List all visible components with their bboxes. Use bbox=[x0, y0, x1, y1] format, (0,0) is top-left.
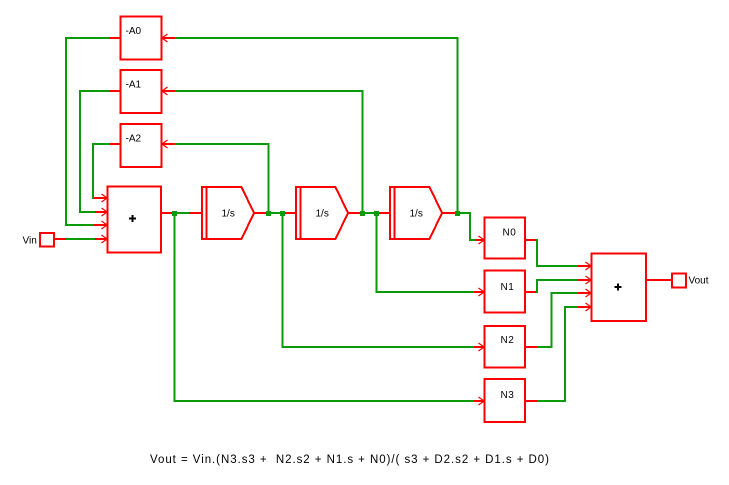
wire: Vin to summer U1 input 4 bbox=[54, 238, 107, 240]
integrator I3 bbox=[390, 187, 442, 239]
wire: feedback to -A0 input bbox=[162, 37, 459, 212]
svg-text:Vout = Vin.(N3.s3 + N2.s2 + N: Vout = Vin.(N3.s3 + N2.s2 + N1.s + N0)/(… bbox=[150, 454, 549, 466]
wire: integrator I2 output to integrator I3 input bbox=[348, 212, 390, 214]
arrowhead into U1 input 2 bbox=[102, 208, 108, 216]
block N0 bbox=[485, 218, 526, 259]
wire: N2 output to summer U2 input 3 bbox=[525, 292, 591, 348]
arrowhead into U2 input 2 bbox=[586, 276, 592, 284]
wire: -A0 output to summer U1 input 3 bbox=[65, 37, 121, 226]
wire: integrator I1 output to integrator I2 input bbox=[254, 212, 296, 214]
node junction feedback A2 bbox=[266, 211, 271, 216]
arrowhead into U2 input 3 bbox=[586, 289, 592, 297]
arrowhead into U1 input 1 bbox=[102, 194, 108, 202]
svg-text:Vin: Vin bbox=[23, 236, 37, 247]
arrowhead into U1 input 3 bbox=[102, 221, 108, 229]
wire: summer U1 output to integrator I1 input bbox=[161, 212, 202, 214]
block -A2 bbox=[121, 124, 162, 167]
arrowhead into N3 input bbox=[479, 397, 485, 405]
svg-text:N0: N0 bbox=[503, 228, 517, 239]
wire: tap junction to N1 input bbox=[376, 215, 485, 293]
arrowhead into N2 input bbox=[479, 343, 485, 351]
terminal Vout bbox=[672, 274, 709, 288]
wire: junction to N3 input bbox=[174, 215, 485, 402]
arrowhead into U1 input 4 bbox=[102, 235, 108, 243]
svg-text:1/s: 1/s bbox=[222, 209, 235, 220]
arrowhead into N0 input bbox=[479, 236, 485, 244]
svg-text:-A2: -A2 bbox=[126, 134, 142, 145]
wire: N1 output to summer U2 input 2 bbox=[525, 279, 591, 293]
integrator I1 bbox=[202, 187, 254, 239]
wire: feedback to -A2 input bbox=[162, 143, 270, 212]
block N3 bbox=[485, 379, 526, 422]
block -A1 bbox=[121, 70, 162, 113]
terminal Vin bbox=[23, 233, 55, 247]
wire: N0 output to summer U2 input 1 bbox=[525, 239, 591, 267]
summer U2 bbox=[592, 254, 647, 322]
arrowhead into -A0 input bbox=[162, 34, 168, 42]
svg-text:N1: N1 bbox=[501, 282, 515, 293]
wire: feedback to -A1 input bbox=[162, 90, 364, 212]
summer U1 bbox=[108, 187, 162, 253]
arrowhead into -A1 input bbox=[162, 87, 168, 95]
block N1 bbox=[485, 271, 526, 313]
node junction feedback A0 bbox=[455, 211, 460, 216]
node junction after U1 output bbox=[172, 211, 177, 216]
arrowhead into -A2 input bbox=[162, 140, 168, 148]
node junction feedback A1 bbox=[360, 211, 365, 216]
wire: tap junction to N2 input bbox=[282, 215, 485, 348]
svg-text:1/s: 1/s bbox=[410, 209, 423, 220]
wire: summer U2 output to Vout terminal bbox=[646, 279, 672, 281]
svg-text:Vout: Vout bbox=[689, 276, 709, 287]
svg-text:N2: N2 bbox=[501, 335, 515, 346]
arrowhead into U2 input 4 bbox=[586, 303, 592, 311]
node junction tap to N1 bbox=[374, 211, 379, 216]
wire: N3 output to summer U2 input 4 bbox=[525, 306, 591, 402]
block -A0 bbox=[121, 17, 162, 60]
block N2 bbox=[485, 326, 526, 368]
wire: -A2 output to summer U1 input 1 bbox=[92, 143, 121, 199]
integrator I2 bbox=[296, 187, 348, 239]
wire: -A1 output to summer U1 input 2 bbox=[79, 90, 121, 213]
svg-text:-A0: -A0 bbox=[126, 26, 142, 37]
svg-text:1/s: 1/s bbox=[316, 209, 329, 220]
svg-text:-A1: -A1 bbox=[126, 80, 142, 91]
wire: integrator I3 output to N0 input bbox=[442, 212, 484, 241]
arrowhead into N1 input bbox=[479, 288, 485, 296]
svg-text:N3: N3 bbox=[501, 390, 515, 401]
arrowhead into U2 input 1 bbox=[586, 262, 592, 270]
node junction tap to N2 bbox=[280, 211, 285, 216]
